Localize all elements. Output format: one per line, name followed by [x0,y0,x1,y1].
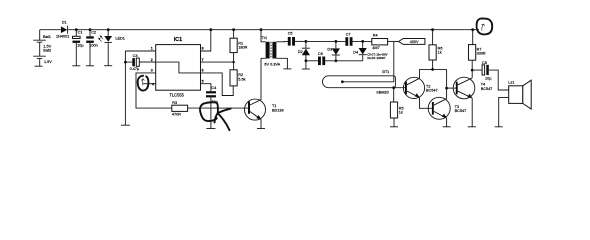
battery Bat2 [43,49,52,64]
diode D1 [56,21,69,39]
svg-text:4: 4 [152,82,154,86]
svg-text:5.6k: 5.6k [238,77,245,81]
wire cathode to T2 base and R5 [394,88,405,102]
svg-text:1N4001: 1N4001 [56,34,69,38]
svg-text:C3: C3 [133,54,138,58]
capacitor C5 [288,32,306,46]
annotation scribble near C4 ground [200,102,231,130]
svg-text:0.47µ: 0.47µ [130,67,140,71]
ground R5 [390,126,398,128]
battery Bat1 [33,30,51,66]
node 400V flag [399,39,425,45]
pin 8 [200,30,211,51]
node R6 bottom [431,68,434,71]
svg-text:IC1: IC1 [174,37,182,43]
svg-text:400V: 400V [410,40,419,44]
wire tube anode riser [393,41,395,81]
svg-text:180R: 180R [238,45,247,49]
svg-text:D4: D4 [353,50,358,54]
capacitor C4 [206,86,218,128]
svg-text:Tr1: Tr1 [262,36,268,40]
ground T1 [257,128,265,130]
node C3 ground line [124,61,127,64]
svg-text:7: 7 [202,58,204,62]
svg-text:BC547: BC547 [426,89,438,93]
annotation loop top right [473,18,493,34]
wire top supply rail [40,29,473,31]
svg-text:3: 3 [151,69,153,73]
svg-text:10µ: 10µ [77,44,84,48]
capacitor C7 [345,33,371,46]
resistor R5 [390,102,403,127]
node tube cathode [392,86,395,89]
svg-text:1k: 1k [438,51,442,55]
svg-text:Bat1: Bat1 [43,35,51,39]
ground T3 [443,126,451,128]
transistor T2 BC547 [403,69,437,108]
ground battery [35,65,43,67]
svg-text:BC547: BC547 [455,109,467,113]
svg-text:C8: C8 [482,61,487,65]
svg-text:1: 1 [151,47,153,51]
svg-text:C5-C7: 10n 400V: C5-C7: 10n 400V [367,52,387,56]
node R7 rail end [471,28,474,31]
svg-text:C1: C1 [78,30,83,34]
diode D4 [336,40,367,61]
svg-text:2: 2 [151,58,153,62]
ground C2 [86,65,94,67]
svg-text:470R: 470R [172,112,181,116]
transistor T4 BC547 [447,70,493,127]
ground Tr1 secondary [283,68,291,70]
ground D2 [302,68,310,70]
svg-text:C4: C4 [211,86,216,90]
transistor T3 BC547 [428,69,466,126]
pin 1 [125,47,155,51]
svg-text:D1: D1 [62,21,67,25]
capacitor C2 [86,30,98,66]
ground LED1 [104,65,112,67]
svg-text:D3: D3 [327,48,332,52]
ground C1 [72,65,80,67]
svg-text:100n: 100n [89,44,97,48]
svg-text:TLC555: TLC555 [169,93,184,98]
node Tr1 rail [260,28,263,31]
node T4 base junction [445,87,448,90]
svg-text:D2: D2 [298,50,303,54]
ground Ls1 [495,126,503,128]
svg-text:1.5V: 1.5V [44,60,52,64]
svg-text:LED1: LED1 [115,36,125,40]
svg-text:Ls1: Ls1 [508,81,514,85]
op-amp IC1 box TLC555 [155,37,200,97]
svg-text:Bat2: Bat2 [43,49,51,53]
svg-text:R4: R4 [373,34,378,38]
resistor R6 [429,28,442,69]
svg-text:D2-D4: 1N4007: D2-D4: 1N4007 [367,56,386,60]
node LED1 top [107,28,110,31]
node pin7 junction [232,61,234,63]
annotation loop pin 4 [138,76,149,91]
resistor R4 [372,34,399,50]
loudspeaker Ls1 [499,80,532,127]
node C1 top [75,28,78,31]
diode D2 [298,40,310,69]
svg-text:C5: C5 [288,32,293,36]
diode D3 [306,40,346,62]
pin 3 [136,69,172,109]
wire pin1 ground line [124,51,126,125]
svg-text:C2: C2 [91,30,96,34]
svg-text:R3: R3 [172,101,177,105]
wire R3 to T1 base [188,107,248,109]
capacitor C3 [125,54,155,71]
wire collector bus [420,68,447,70]
transistor T1 BD139 [245,58,284,128]
node pin8 rail [209,28,212,31]
svg-text:330R: 330R [477,52,486,56]
svg-text:4M7: 4M7 [372,46,379,50]
ground T4 [468,126,476,128]
pin 2 [139,58,155,62]
svg-text:BD139: BD139 [272,108,284,112]
svg-text:10µ: 10µ [485,76,492,80]
svg-text:SBM20: SBM20 [376,90,388,94]
pin 4 [143,82,155,86]
svg-text:5: 5 [202,79,204,83]
svg-text:8: 8 [202,47,204,51]
resistor R1 [230,28,248,70]
resistor R3 [172,101,188,116]
note capacitor and diode types [367,52,387,60]
svg-text:C7: C7 [346,33,351,37]
svg-text:1k: 1k [399,110,403,114]
pin 7 [200,58,234,62]
node C2 top [89,28,92,31]
svg-text:C6: C6 [318,52,323,56]
svg-text:6: 6 [202,69,204,73]
ground C4 [206,128,215,130]
resistor R2 [230,70,246,86]
svg-text:GT1: GT1 [382,70,389,74]
capacitor C1 [73,30,85,66]
svg-text:6V 0.3VA: 6V 0.3VA [264,63,280,67]
ground pin1 [121,124,130,126]
transformer Tr1 [261,30,288,69]
capacitor C6 [306,52,336,65]
pin 6 [200,69,233,96]
LED LED1 [98,30,125,66]
capacitor C8 [471,61,509,90]
resistor R7 [469,30,486,70]
Geiger tube GT1 SBM20 [323,70,396,95]
pin 5 [200,79,211,91]
svg-text:BC547: BC547 [481,87,493,91]
